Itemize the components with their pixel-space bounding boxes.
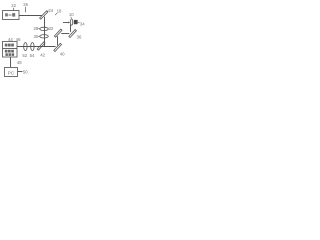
- laser text: [5, 13, 15, 17]
- svg-text:24: 24: [48, 8, 53, 13]
- laser box 22: [3, 11, 20, 20]
- wire detection horizontal: [17, 46, 56, 48]
- lens 28: [40, 27, 49, 30]
- leader 28: [38, 28, 40, 30]
- leader 24: [47, 10, 48, 13]
- wire between pair mirrors: [61, 33, 69, 35]
- wire laser to dichroic: [19, 15, 42, 17]
- lens 54: [31, 43, 34, 51]
- svg-text:44: 44: [8, 37, 13, 42]
- leader 18: [55, 13, 57, 15]
- leader 22: [13, 8, 15, 11]
- lens 30: [40, 35, 49, 38]
- PC box: [5, 68, 18, 77]
- leader 26: [25, 7, 27, 13]
- svg-text:36: 36: [77, 35, 82, 40]
- wire pair down to mirror B: [57, 36, 59, 45]
- svg-text:50: 50: [23, 70, 28, 75]
- leader 30: [38, 35, 40, 37]
- svg-text:42: 42: [40, 52, 45, 57]
- svg-text:28: 28: [34, 26, 39, 31]
- wire vertical main beam: [44, 17, 46, 47]
- svg-text:30: 30: [34, 34, 39, 39]
- wire unit 10 down: [70, 24, 72, 32]
- mirror 32 left of pair: [54, 29, 62, 37]
- detector box stack: [3, 42, 18, 58]
- spectrometer text: [5, 44, 14, 47]
- svg-text:46: 46: [16, 37, 21, 42]
- mirror 36 right of pair: [69, 30, 77, 38]
- wire stack to PC: [10, 57, 12, 67]
- dichroic mirror 24: [40, 11, 48, 19]
- detector text line2: [5, 53, 14, 56]
- leader 34: [78, 21, 80, 24]
- sample block: [74, 20, 78, 24]
- svg-text:32: 32: [49, 26, 54, 31]
- svg-text:10: 10: [69, 12, 74, 17]
- arrow into unit 10: [63, 22, 70, 24]
- wire PC right: [18, 71, 23, 73]
- svg-text:52: 52: [22, 53, 27, 58]
- svg-text:18: 18: [57, 9, 62, 14]
- svg-text:34: 34: [80, 22, 85, 27]
- svg-text:54: 54: [30, 53, 35, 58]
- lens 52: [24, 43, 27, 51]
- svg-text:48: 48: [17, 60, 22, 65]
- svg-text:40: 40: [60, 51, 65, 56]
- mirror 42: [37, 42, 45, 50]
- objective lens of unit 10: [71, 19, 73, 25]
- svg-text:PC: PC: [8, 70, 15, 75]
- svg-text:22: 22: [11, 3, 16, 8]
- detector text line1: [5, 50, 14, 53]
- divider line: [3, 48, 18, 50]
- leader 10: [70, 17, 73, 19]
- mirror 40: [54, 43, 62, 51]
- svg-text:26: 26: [23, 2, 28, 7]
